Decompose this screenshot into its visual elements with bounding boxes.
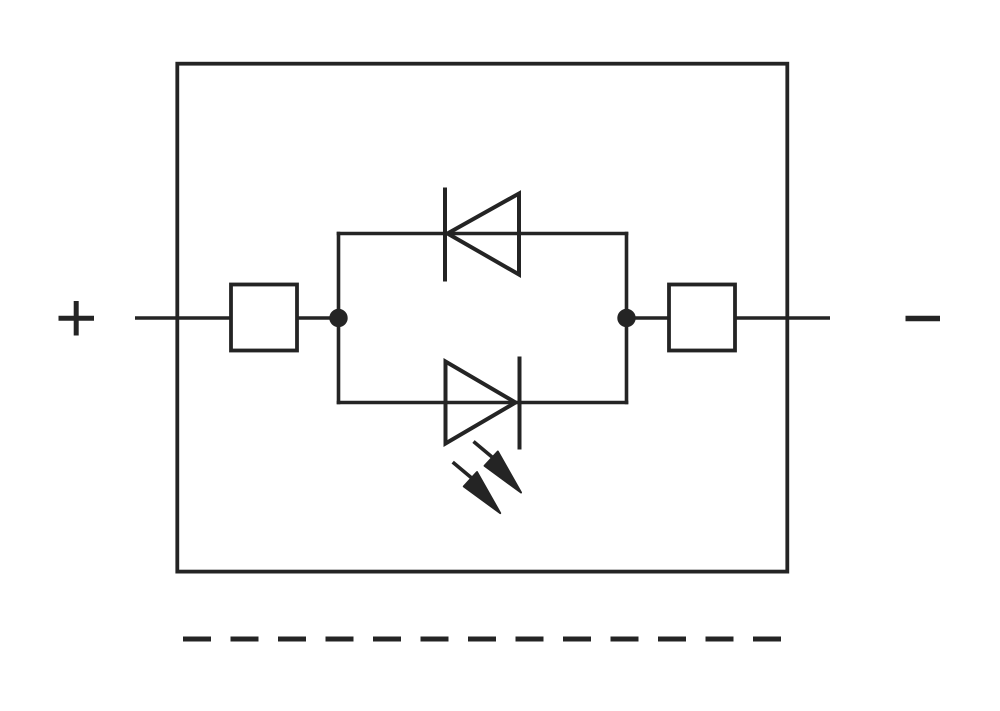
terminal block square X2: [669, 285, 735, 351]
wire: node B to X2: [627, 316, 670, 319]
terminal block square X1: [231, 285, 297, 351]
LED light emission arrow 1: [474, 442, 522, 493]
LED light emission arrow 2: [453, 462, 501, 513]
wire: bottom branch horizontal: [339, 401, 627, 405]
dashed mounting rail line: [183, 637, 782, 642]
node B junction dot: [617, 309, 635, 327]
diode V1 (top, cathode left): [445, 188, 519, 282]
wire: right branch vertical: [625, 234, 629, 403]
enclosure outline: [177, 64, 787, 572]
node A junction dot: [329, 309, 347, 327]
LED V2 (bottom, cathode right): [446, 357, 520, 450]
wire: plus lead into enclosure: [135, 316, 231, 319]
minus terminal symbol: [906, 316, 941, 322]
plus terminal symbol: [59, 301, 95, 336]
wire: top branch horizontal: [339, 232, 627, 236]
wire: X1 to node A: [297, 316, 339, 319]
wire: left branch vertical: [337, 234, 341, 403]
wire: X2 to minus lead: [735, 316, 830, 319]
